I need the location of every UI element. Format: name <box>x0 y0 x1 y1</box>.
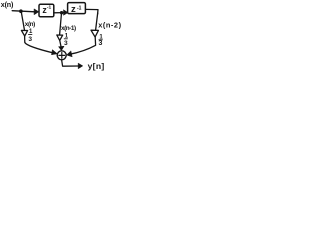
wire triangle 2 to summer <box>60 40 62 47</box>
svg-text:-1: -1 <box>77 5 82 11</box>
wire input horizontal <box>12 11 35 12</box>
wire triangle 3 to summer <box>70 37 96 54</box>
wire tap 1 vertical <box>21 12 24 31</box>
value label 1/3 right <box>99 35 104 48</box>
wire arrowhead into summer right <box>67 51 72 57</box>
wire arrowhead into summer top <box>59 46 64 50</box>
node x(n-2) label <box>98 20 121 29</box>
wire Z2 output right and corner down <box>86 9 98 14</box>
summer node circle + <box>57 51 66 60</box>
gain triangle 1/3 right <box>91 30 98 37</box>
svg-text:z: z <box>71 4 76 15</box>
svg-text:x(n): x(n) <box>1 0 14 9</box>
gain triangle 1/3 middle <box>57 35 63 40</box>
wire from triangle 1 to summer <box>25 36 54 53</box>
wire arrowhead into Z2 <box>64 10 68 15</box>
node junction dot 2 <box>60 11 63 14</box>
wire arrowhead output <box>78 63 83 68</box>
svg-text:3: 3 <box>64 40 68 47</box>
wire output down then right <box>62 60 79 66</box>
wire arrowhead into summer left <box>52 50 58 55</box>
node x(n) tap label <box>25 21 35 28</box>
wire tap 3 vertical <box>96 13 98 30</box>
svg-text:x(n-2): x(n-2) <box>98 20 121 29</box>
node x(n) input label <box>1 0 14 9</box>
svg-text:3: 3 <box>28 36 32 43</box>
node x(n-1) label <box>61 25 76 32</box>
delay block Z1 z^-1 <box>39 4 54 17</box>
value label 1/3 middle <box>64 34 69 48</box>
node junction dot 1 <box>19 9 23 13</box>
node y[n] output label <box>88 61 105 71</box>
wire arrowhead into Z1 <box>34 9 39 15</box>
wire Z1 to Z2 <box>54 12 64 14</box>
svg-text:y[n]: y[n] <box>88 61 105 71</box>
value label 1/3 left <box>28 29 33 43</box>
delay block Z2 z^-1 <box>68 3 86 14</box>
svg-text:x(n-1): x(n-1) <box>61 25 76 32</box>
svg-text:x(n): x(n) <box>25 21 35 28</box>
svg-text:-1: -1 <box>47 5 52 11</box>
wire tap 2 vertical <box>60 13 62 35</box>
gain triangle 1/3 left <box>21 30 27 36</box>
svg-text:3: 3 <box>99 40 103 47</box>
